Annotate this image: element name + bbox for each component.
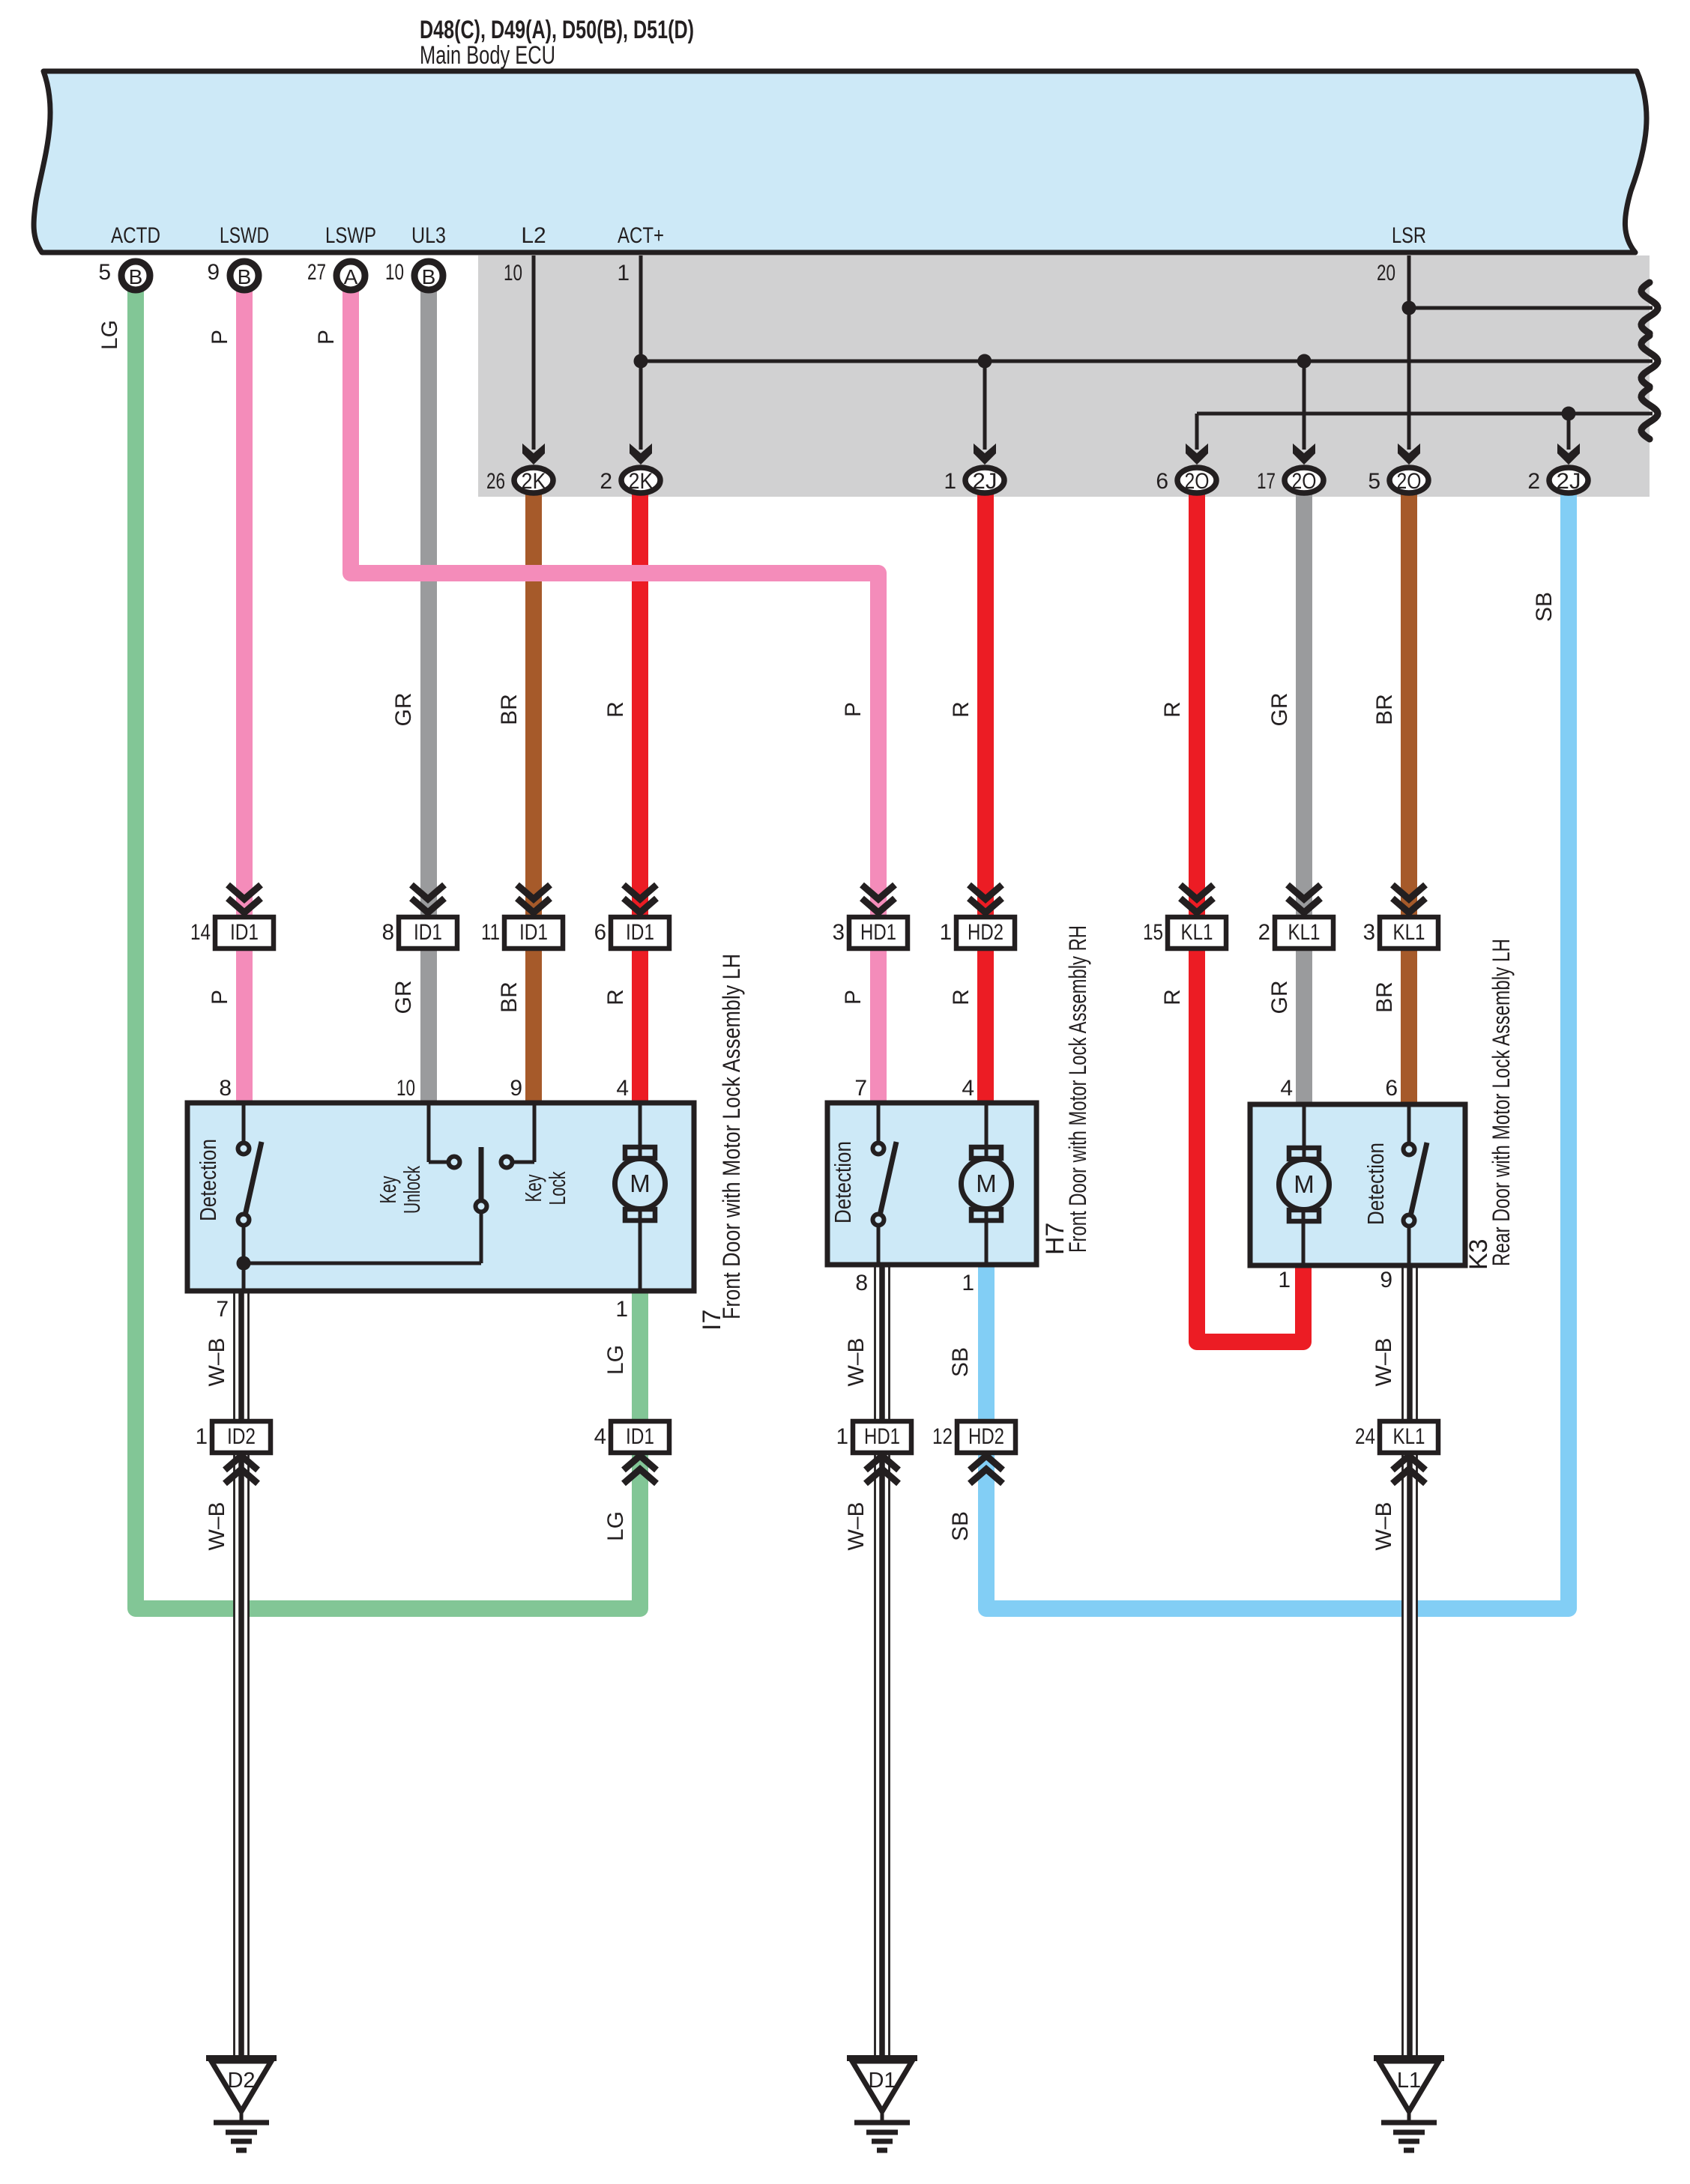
H7 Front Door with Motor Lock Assembly RH box	[827, 1103, 1036, 1265]
svg-text:Detection: Detection	[1362, 1143, 1389, 1225]
wire GR from 2O pin17 to K3 pin4	[1296, 493, 1312, 1109]
svg-text:P: P	[314, 330, 339, 345]
svg-text:2K: 2K	[629, 469, 654, 494]
svg-text:UL3: UL3	[411, 223, 446, 248]
svg-text:5: 5	[1368, 469, 1380, 494]
wire BR from 2K pin26 to I7 pin9	[525, 493, 542, 1107]
svg-text:6: 6	[1385, 1076, 1398, 1101]
svg-text:R: R	[949, 701, 974, 718]
svg-text:7: 7	[854, 1076, 867, 1101]
svg-text:8: 8	[219, 1076, 232, 1101]
connector 6 ID1	[624, 885, 657, 899]
wire L2 pin10 to connector 2K	[532, 255, 536, 450]
wire ACT+ pin1 to connector 2K	[639, 255, 643, 450]
svg-text:B: B	[422, 265, 436, 288]
I7 key lock contact	[533, 1105, 537, 1162]
bus wire from LSR	[1409, 306, 1653, 310]
svg-text:P: P	[841, 702, 866, 717]
svg-text:2K: 2K	[522, 469, 546, 494]
svg-text:R: R	[949, 989, 974, 1005]
svg-text:D48(C), D49(A), D50(B), D51(D): D48(C), D49(A), D50(B), D51(D)	[420, 16, 694, 44]
svg-text:2O: 2O	[1292, 469, 1317, 494]
ECU Main Body ECU box	[34, 71, 1647, 252]
svg-text:1: 1	[836, 1424, 848, 1449]
connector 24 KL1 (lower)	[1380, 1421, 1438, 1453]
svg-text:17: 17	[1257, 469, 1276, 494]
ECU pin circle 27(A)	[337, 261, 365, 290]
wire W-B from I7 pin7 to ground D2	[234, 1289, 250, 2058]
svg-text:R: R	[603, 701, 628, 718]
svg-text:SB: SB	[948, 1347, 973, 1377]
svg-text:P: P	[208, 990, 232, 1005]
svg-text:2J: 2J	[973, 469, 998, 494]
I7 node common	[237, 1256, 251, 1271]
svg-text:9: 9	[1380, 1268, 1392, 1292]
svg-text:8: 8	[855, 1271, 868, 1295]
harness continuation squiggle 3	[1641, 388, 1658, 439]
svg-text:KL1: KL1	[1393, 1424, 1425, 1449]
svg-text:ID1: ID1	[519, 920, 548, 945]
svg-text:W–B: W–B	[844, 1337, 869, 1386]
wire drop to 2O pin6	[1195, 414, 1199, 450]
svg-text:W–B: W–B	[205, 1501, 229, 1550]
connector 1 HD1 (lower)	[853, 1421, 911, 1453]
svg-text:L1: L1	[1397, 2069, 1421, 2093]
wire drop to 2J pin2	[1567, 414, 1571, 450]
svg-text:4: 4	[616, 1076, 629, 1101]
connector 3 KL1	[1392, 885, 1425, 899]
connector 11 ID1	[517, 885, 550, 899]
svg-text:1: 1	[940, 920, 952, 945]
connector 4 ID1 (lower)	[611, 1421, 669, 1453]
ECU pin circle 10(B)	[414, 261, 443, 290]
svg-text:2J: 2J	[1557, 469, 1581, 494]
svg-text:ACT+: ACT+	[618, 223, 664, 248]
svg-text:W–B: W–B	[1371, 1501, 1396, 1550]
svg-text:Detection: Detection	[195, 1139, 221, 1221]
harness continuation squiggle 1	[1641, 282, 1658, 333]
node junction 2J drop	[978, 354, 992, 369]
ECU pin circle 5(B)	[121, 261, 150, 290]
svg-text:20: 20	[1377, 261, 1395, 285]
connector oval 1 2J	[974, 444, 996, 465]
wire LG from ACTD to I7 pin1	[136, 284, 640, 1609]
svg-text:2: 2	[1527, 469, 1540, 494]
svg-text:27: 27	[307, 260, 326, 285]
connector oval 5 2O	[1398, 444, 1420, 465]
svg-text:9: 9	[510, 1076, 522, 1101]
svg-text:HD2: HD2	[968, 1424, 1004, 1449]
svg-text:10: 10	[396, 1076, 415, 1101]
ground L1	[1374, 2055, 1444, 2061]
svg-text:HD1: HD1	[864, 1424, 900, 1449]
svg-text:BR: BR	[497, 694, 522, 725]
svg-text:SB: SB	[1532, 592, 1557, 622]
svg-text:Main Body ECU: Main Body ECU	[420, 41, 555, 70]
svg-text:5: 5	[98, 260, 111, 285]
svg-text:GR: GR	[391, 981, 416, 1014]
svg-text:KL1: KL1	[1288, 920, 1321, 945]
wire LSR pin20 down	[1407, 255, 1411, 450]
connector 15 KL1	[1180, 885, 1213, 899]
svg-text:R: R	[1160, 989, 1185, 1005]
connector oval 26 2K	[522, 444, 545, 465]
svg-text:26: 26	[486, 469, 505, 494]
wire R from 2O pin6 to K3 pin1	[1197, 493, 1303, 1342]
svg-text:ID1: ID1	[230, 920, 259, 945]
svg-text:M: M	[976, 1170, 997, 1197]
wire P from LSWP to H7 pin7	[351, 284, 878, 1107]
svg-text:10: 10	[504, 261, 522, 285]
svg-text:Lock: Lock	[544, 1171, 570, 1205]
svg-text:15: 15	[1143, 920, 1163, 945]
connector oval 17 2O	[1293, 444, 1315, 465]
svg-text:KL1: KL1	[1393, 920, 1425, 945]
svg-text:6: 6	[1156, 469, 1168, 494]
I7 key unlock contact	[427, 1105, 431, 1162]
svg-text:1: 1	[196, 1424, 208, 1449]
node junction 2J pin2 drop	[1562, 407, 1576, 421]
svg-text:12: 12	[932, 1424, 953, 1449]
svg-text:Front Door with Motor Lock Ass: Front Door with Motor Lock Assembly LH	[718, 954, 745, 1319]
svg-text:ID2: ID2	[227, 1424, 256, 1449]
svg-text:1: 1	[944, 469, 956, 494]
I7 detection switch	[242, 1105, 246, 1143]
I7 key switch common	[476, 1201, 487, 1212]
svg-text:ID1: ID1	[626, 1424, 654, 1449]
svg-text:1: 1	[1278, 1268, 1291, 1292]
svg-text:4: 4	[1280, 1076, 1293, 1101]
svg-text:W–B: W–B	[205, 1337, 229, 1386]
svg-text:L2: L2	[521, 223, 546, 248]
svg-text:KL1: KL1	[1181, 920, 1213, 945]
svg-text:1: 1	[617, 261, 630, 285]
svg-text:P: P	[208, 330, 232, 345]
svg-text:LSWD: LSWD	[220, 223, 269, 248]
svg-text:8: 8	[382, 920, 394, 945]
wire W-B from H7 pin8 to ground D1	[875, 1262, 890, 2058]
svg-text:7: 7	[216, 1297, 229, 1322]
connector oval 2 2J	[1557, 444, 1580, 465]
svg-text:3: 3	[833, 920, 845, 945]
I7 Front Door with Motor Lock Assembly LH box	[187, 1103, 694, 1291]
svg-text:2: 2	[1258, 920, 1270, 945]
svg-text:A: A	[344, 265, 358, 288]
I7 common bus to key switch	[244, 1262, 481, 1265]
svg-text:SB: SB	[948, 1511, 973, 1541]
K3 Rear Door with Motor Lock Assembly LH box	[1250, 1104, 1465, 1265]
wire P from LSWD to I7 pin8	[236, 284, 253, 1107]
svg-text:P: P	[841, 990, 866, 1005]
connector 3 HD1	[862, 885, 895, 899]
I7 motor M	[639, 1105, 642, 1159]
svg-text:Front Door with Motor Lock Ass: Front Door with Motor Lock Assembly RH	[1064, 925, 1091, 1253]
svg-text:D2: D2	[227, 2069, 255, 2093]
ground D2	[206, 2055, 277, 2061]
svg-text:GR: GR	[1267, 981, 1292, 1014]
svg-text:Rear Door with Motor Lock Asse: Rear Door with Motor Lock Assembly LH	[1488, 939, 1515, 1266]
wire R from 2J pin1 to H7 pin4	[977, 493, 994, 1107]
svg-text:BR: BR	[497, 981, 522, 1013]
svg-text:14: 14	[190, 920, 211, 945]
svg-text:D1: D1	[868, 2069, 896, 2093]
node on LSR wire	[1402, 301, 1416, 315]
wire BR from 2O pin5 to K3 pin6	[1401, 493, 1417, 1109]
svg-text:BR: BR	[1372, 694, 1397, 725]
bus wire lower	[1197, 412, 1653, 416]
svg-text:R: R	[1160, 701, 1185, 718]
connector oval 6 2O	[1186, 444, 1208, 465]
svg-text:B: B	[129, 265, 143, 288]
svg-text:11: 11	[481, 920, 500, 945]
H7 motor M	[985, 1105, 989, 1159]
svg-text:M: M	[1294, 1170, 1315, 1198]
bus wire from ACT+	[641, 360, 1653, 363]
node junction 2O drop	[1297, 354, 1312, 369]
connector 1 HD2	[969, 885, 1002, 899]
wire drop to 2J pin1	[983, 361, 987, 450]
node on ACT+ wire	[634, 354, 648, 369]
connector oval 2 2K	[630, 444, 652, 465]
svg-text:3: 3	[1363, 920, 1375, 945]
svg-text:2O: 2O	[1397, 469, 1422, 494]
svg-text:9: 9	[207, 260, 220, 285]
svg-text:LG: LG	[603, 1345, 628, 1375]
svg-text:6: 6	[594, 920, 606, 945]
svg-text:LG: LG	[97, 320, 122, 350]
wire SB from 2J pin2 to H7 pin1	[986, 493, 1569, 1609]
connector 14 ID1	[228, 885, 261, 899]
svg-text:HD1: HD1	[860, 920, 896, 945]
svg-text:ACTD: ACTD	[111, 223, 160, 248]
svg-text:R: R	[603, 989, 628, 1005]
svg-text:LSR: LSR	[1392, 223, 1426, 248]
svg-text:4: 4	[962, 1076, 974, 1101]
ground D1	[847, 2055, 917, 2061]
svg-text:LG: LG	[603, 1511, 628, 1541]
K3 detection switch	[1407, 1107, 1411, 1144]
svg-text:W–B: W–B	[844, 1501, 869, 1550]
wire GR from UL3 to I7 pin10	[420, 284, 437, 1107]
svg-text:BR: BR	[1372, 981, 1397, 1013]
svg-text:ID1: ID1	[626, 920, 654, 945]
svg-text:24: 24	[1355, 1424, 1375, 1449]
svg-text:M: M	[630, 1170, 651, 1197]
svg-text:1: 1	[962, 1271, 974, 1295]
wire drop to 2O pin17	[1303, 361, 1306, 450]
svg-text:GR: GR	[1267, 693, 1292, 727]
svg-text:Key: Key	[375, 1176, 401, 1203]
K3 motor M	[1303, 1107, 1306, 1160]
svg-text:LSWP: LSWP	[325, 223, 376, 248]
svg-text:ID1: ID1	[414, 920, 442, 945]
connector 1 ID2 (lower)	[212, 1421, 271, 1453]
svg-text:1: 1	[615, 1297, 628, 1322]
svg-text:Detection: Detection	[830, 1141, 856, 1223]
wire W-B from K3 pin9 to ground L1	[1402, 1264, 1418, 2058]
svg-text:4: 4	[594, 1424, 606, 1449]
connector 12 HD2 (lower)	[957, 1421, 1015, 1453]
svg-text:Unlock: Unlock	[399, 1166, 425, 1214]
gray harness box	[478, 255, 1650, 497]
connector 2 KL1	[1288, 885, 1321, 899]
svg-text:2O: 2O	[1185, 469, 1210, 494]
H7 detection switch	[877, 1105, 881, 1143]
svg-text:2: 2	[600, 469, 612, 494]
svg-text:GR: GR	[391, 693, 416, 727]
wire R from 2K pin2 to I7 pin4	[632, 493, 648, 1107]
ECU pin circle 9(B)	[230, 261, 259, 290]
connector 8 ID1	[411, 885, 444, 899]
svg-text:B: B	[238, 265, 252, 288]
svg-text:Key: Key	[520, 1174, 546, 1202]
svg-text:10: 10	[385, 260, 404, 285]
harness continuation squiggle 2	[1641, 336, 1658, 387]
svg-text:HD2: HD2	[968, 920, 1004, 945]
svg-text:W–B: W–B	[1371, 1337, 1396, 1386]
